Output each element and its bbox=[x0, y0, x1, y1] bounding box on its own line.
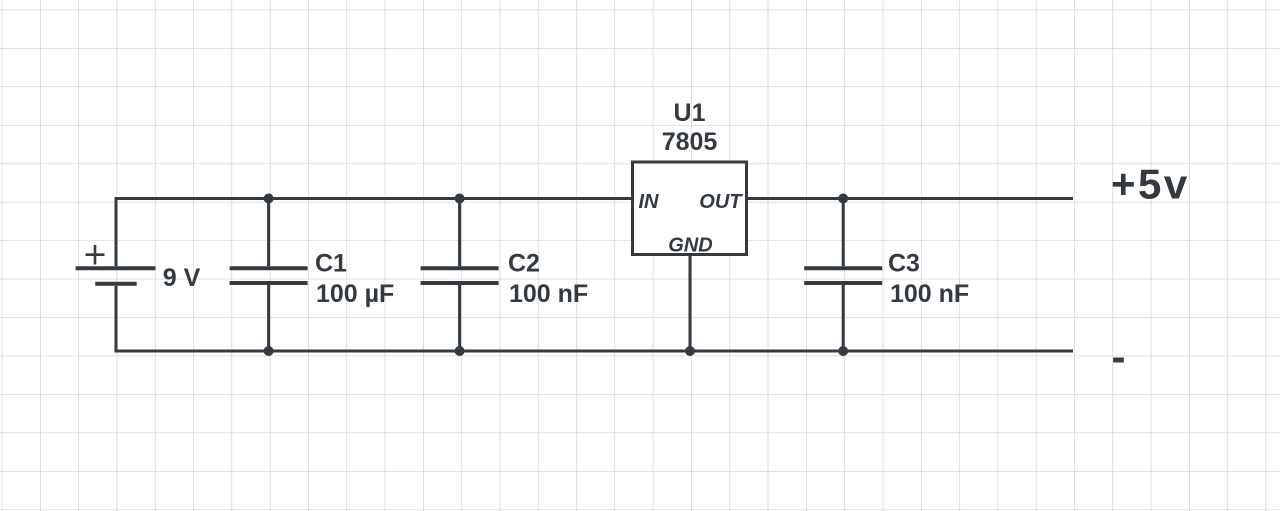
junction C3 bottom bbox=[838, 346, 848, 356]
wire C1 top lead bbox=[267, 199, 270, 267]
wire C3 top lead bbox=[842, 199, 845, 267]
junction C2 top bbox=[455, 194, 465, 204]
svg-text:9 V: 9 V bbox=[163, 264, 201, 292]
svg-text:OUT: OUT bbox=[699, 191, 743, 213]
svg-text:100 nF: 100 nF bbox=[890, 280, 969, 308]
wire C2 top lead bbox=[458, 199, 461, 267]
battery BT1 9V plates bbox=[76, 268, 156, 283]
capacitor C1 plates bbox=[230, 268, 308, 283]
junction U1 GND bottom bbox=[685, 346, 695, 356]
wire C2 bottom lead bbox=[458, 285, 461, 351]
svg-text:C2: C2 bbox=[508, 250, 540, 278]
wire top rail from battery to U1 IN bbox=[115, 197, 633, 200]
junction C1 top bbox=[264, 194, 274, 204]
junction C2 bottom bbox=[455, 346, 465, 356]
wire C1 bottom lead bbox=[267, 285, 270, 351]
wire top rail from U1 OUT to +5v end bbox=[747, 197, 1074, 200]
capacitor C2 plates bbox=[421, 268, 499, 283]
battery plus sign bbox=[86, 245, 105, 265]
capacitor C3 plates bbox=[804, 268, 882, 283]
svg-text:C3: C3 bbox=[888, 250, 920, 278]
svg-text:100 µF: 100 µF bbox=[316, 280, 394, 308]
svg-text:GND: GND bbox=[668, 235, 712, 257]
svg-text:+5v: +5v bbox=[1111, 161, 1190, 208]
svg-text:-: - bbox=[1112, 333, 1129, 380]
svg-text:100 nF: 100 nF bbox=[509, 280, 588, 308]
wire U1 GND lead bbox=[689, 255, 692, 352]
svg-text:IN: IN bbox=[639, 191, 660, 213]
regulator U1 body bbox=[633, 162, 747, 255]
svg-text:U1: U1 bbox=[674, 99, 706, 127]
svg-text:7805: 7805 bbox=[662, 128, 718, 156]
wire bottom rail bbox=[115, 350, 1074, 353]
wire battery negative lead bbox=[115, 286, 118, 351]
wire C3 bottom lead bbox=[842, 285, 845, 351]
svg-text:C1: C1 bbox=[315, 250, 347, 278]
junction C1 bottom bbox=[264, 346, 274, 356]
junction C3 top bbox=[838, 194, 848, 204]
wire battery positive lead bbox=[115, 199, 118, 267]
